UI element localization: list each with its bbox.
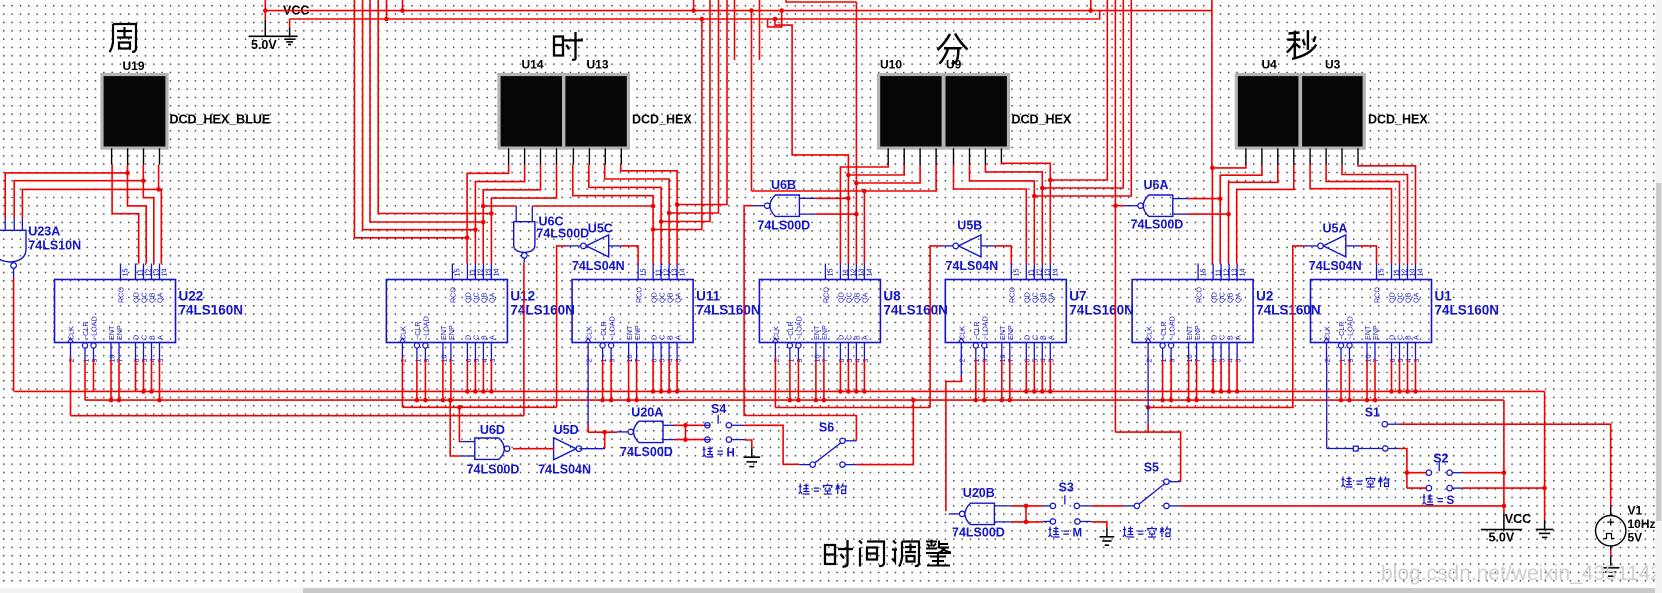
- junction U6A in1: [1218, 196, 1223, 201]
- svg-text:U1: U1: [1435, 289, 1453, 304]
- gate U6A 74LS00D NAND: [1138, 195, 1173, 216]
- svg-text:ENP: ENP: [820, 325, 829, 340]
- wire vertical x734.5 (bundleB line5): [734, 0, 736, 60]
- wire hour clock line y407: [402, 406, 556, 408]
- svg-text:U6D: U6D: [480, 423, 505, 437]
- svg-text:15: 15: [826, 269, 835, 277]
- wire U5B input from U7 RCO: [994, 246, 1011, 264]
- svg-text:CLK: CLK: [399, 326, 408, 340]
- gate U20B 74LS00D NAND: [959, 503, 994, 524]
- junction bundleA4: [489, 211, 494, 216]
- counter U12 74LS160N: [386, 264, 507, 363]
- svg-text:A: A: [1047, 335, 1056, 340]
- junction U6A output: [1113, 203, 1118, 208]
- wire U10 to U8 bit1: [840, 165, 888, 264]
- wire U23A output down to bus: [13, 278, 15, 392]
- svg-text:9: 9: [90, 359, 99, 363]
- wire U10 to U8 bit2: [848, 165, 904, 264]
- svg-text:9: 9: [422, 359, 431, 363]
- wire U6C in1 from U12 pin13: [483, 205, 516, 207]
- junction U2 CLK / second clock: [1146, 405, 1151, 410]
- ground for S3: [1106, 528, 1108, 537]
- svg-text:9: 9: [1168, 359, 1177, 363]
- wire U3 to U1 bit1: [1310, 165, 1391, 264]
- switch S2 row1: [1426, 462, 1452, 475]
- junction bundleB2: [659, 219, 664, 224]
- wire U3 to U1 bit4: [1358, 165, 1416, 264]
- wire U9 to U7 bit4: [1001, 163, 1050, 263]
- wire bundleA line5 (to H3): [386, 0, 388, 19]
- wire U14 to U12 bit4: [491, 165, 556, 264]
- wire U13 to U11 bit1: [573, 165, 653, 264]
- wire U23A input2 tap: [14, 181, 143, 218]
- power VCC top rail symbol: [249, 20, 298, 38]
- svg-text:3: 3: [1412, 359, 1421, 363]
- S6 stubs: [799, 441, 856, 465]
- switch S6 SPDT: [810, 438, 845, 467]
- svg-text:7: 7: [1371, 359, 1380, 363]
- counter U2 74LS160N: [1132, 264, 1253, 363]
- wire top rail H2 (VCC distribution): [264, 0, 1212, 11]
- gate U6B 74LS00D NAND: [764, 195, 799, 216]
- wire U14 to U12 bit1: [467, 165, 509, 264]
- svg-text:15: 15: [638, 269, 647, 277]
- junction H3 bundleB1 branch: [700, 17, 705, 22]
- svg-text:74LS160N: 74LS160N: [1069, 303, 1134, 318]
- wire bus1 end down to ground: [1544, 391, 1546, 520]
- wire U8 CLK to minute clock line: [774, 357, 776, 408]
- wire U19 to U22 bit2: [128, 165, 147, 264]
- S4 connecting stubs: [704, 425, 745, 439]
- junction U4pin1 on x1212 feedback: [1210, 166, 1215, 171]
- wire U5C output down: [557, 246, 566, 407]
- wires U7 bottom pins to buses: [974, 360, 1053, 403]
- wire U6C output vertical: [523, 262, 525, 416]
- svg-text:RCO: RCO: [634, 287, 643, 303]
- seven-seg display U13: [564, 75, 629, 149]
- caption 键 = M (S3): [1049, 527, 1083, 540]
- gate U20A 74LS00D NAND: [628, 421, 663, 442]
- counter U11 74LS160N: [572, 264, 693, 363]
- switch S1 SPDT: [1353, 422, 1388, 452]
- svg-text:10Hz: 10Hz: [1628, 517, 1656, 531]
- U5B stubs: [941, 245, 994, 247]
- svg-text:U19: U19: [123, 59, 145, 73]
- wire U23A input1 tap: [5, 173, 127, 218]
- svg-text:RCO: RCO: [449, 287, 458, 303]
- svg-text:QA: QA: [861, 292, 870, 303]
- pins of display U9: [954, 148, 1002, 164]
- section title 秒 (second): [1287, 30, 1317, 59]
- svg-text:15: 15: [121, 269, 130, 277]
- gate U6D 74LS00D NAND: [475, 438, 510, 459]
- title 时间调整 (time adjust): [825, 540, 951, 567]
- junction S2 feed: [1405, 470, 1410, 475]
- svg-text:ENP: ENP: [115, 325, 124, 340]
- junction x792 wire on U8 pin12: [846, 173, 851, 178]
- wire U4 to U2 bit3: [1229, 165, 1278, 264]
- ground bottom-right (bus ground): [1544, 520, 1546, 529]
- wire S6 lower throw to bus2: [856, 400, 913, 465]
- svg-text:QA: QA: [1233, 292, 1242, 303]
- svg-text:U20B: U20B: [963, 486, 995, 500]
- svg-text:74LS00D: 74LS00D: [536, 227, 589, 241]
- wire bundleA line1 to U12 pin vertical: [354, 0, 467, 238]
- wire U10 to U8 bit4: [864, 165, 936, 264]
- svg-text:15: 15: [1012, 269, 1021, 277]
- wire U14 to U12 bit3: [483, 165, 540, 264]
- wire U20A inputs to S4: [674, 423, 704, 442]
- svg-text:U6B: U6B: [771, 178, 796, 192]
- svg-text:3: 3: [674, 359, 683, 363]
- svg-text:2: 2: [1323, 359, 1332, 363]
- switch S3 row2: [1050, 519, 1080, 524]
- wire minute clock line y407: [775, 407, 930, 409]
- junction U5D out on U20A line: [602, 430, 607, 435]
- bus2 horizontal y400 (enable rail): [85, 399, 1504, 401]
- svg-text:14: 14: [865, 269, 874, 277]
- svg-text:U5D: U5D: [554, 423, 579, 437]
- svg-text:3: 3: [156, 359, 165, 363]
- svg-text:5V: 5V: [1628, 531, 1643, 545]
- svg-text:U8: U8: [883, 289, 901, 304]
- wire U6A in1 to U2 pin12: [1187, 198, 1220, 200]
- junction H2 x693.6: [691, 8, 696, 13]
- svg-text:QA: QA: [156, 292, 165, 303]
- svg-text:9: 9: [1346, 359, 1355, 363]
- wire U6C in2 to U11 pin11: [532, 205, 653, 207]
- svg-text:74LS00D: 74LS00D: [757, 219, 810, 233]
- inverter U5C 74LS04N: [581, 235, 609, 257]
- section title 时 (hour): [554, 32, 582, 60]
- svg-text:7: 7: [447, 359, 456, 363]
- svg-text:~LOAD: ~LOAD: [422, 316, 431, 340]
- wire vertical x693.6 to H2: [693, 0, 695, 11]
- svg-text:ENP: ENP: [1371, 325, 1380, 340]
- svg-text:7: 7: [1193, 359, 1202, 363]
- pins of display U3: [1310, 148, 1358, 164]
- wire U13 to U11 bit3: [605, 165, 669, 264]
- svg-text:U20A: U20A: [631, 406, 663, 420]
- wire U9 to U7 bit3: [985, 165, 1042, 264]
- caption 键 = 空格 (S6): [799, 484, 847, 497]
- svg-text:A: A: [1233, 335, 1242, 340]
- pins of display U14: [509, 148, 557, 164]
- svg-text:A: A: [1412, 335, 1421, 340]
- junction U6B in1: [846, 196, 851, 201]
- svg-text:A: A: [156, 335, 165, 340]
- wire S2 row1 to VCC stem: [1462, 472, 1504, 474]
- svg-text:DCD_HEX: DCD_HEX: [1368, 113, 1428, 127]
- wire bundleB line4 to U11 pin vertical: [677, 0, 727, 205]
- scrollbar bottom thumb: [303, 588, 1655, 593]
- svg-text:U4: U4: [1262, 58, 1278, 72]
- wire S1 upper throw to V1: [1400, 424, 1611, 506]
- svg-text:5.0V: 5.0V: [1489, 531, 1515, 545]
- wires U22 bottom pins to buses: [85, 360, 162, 403]
- wire bundleA line4 to U12 pin vertical: [378, 0, 491, 214]
- svg-text:9: 9: [795, 359, 804, 363]
- svg-text:blog.csdn.net/weixin_43511421: blog.csdn.net/weixin_43511421: [1381, 562, 1662, 585]
- section title 分 (minute): [938, 34, 968, 65]
- svg-text:74LS04N: 74LS04N: [538, 463, 591, 477]
- svg-text:QA: QA: [1412, 292, 1421, 303]
- wire bundleC line1 to U7 pin14: [1050, 0, 1107, 180]
- ground for S4: [751, 448, 753, 457]
- svg-text:ENP: ENP: [633, 325, 642, 340]
- svg-text:U23A: U23A: [28, 225, 60, 239]
- svg-text:RCO: RCO: [117, 287, 126, 303]
- counter U22 74LS160N: [55, 264, 176, 363]
- svg-text:DCD_HEX: DCD_HEX: [632, 113, 692, 127]
- svg-text:~LOAD: ~LOAD: [981, 316, 990, 340]
- caption 键 = 空格 (S2): [1342, 477, 1390, 490]
- svg-text:H: H: [727, 448, 735, 460]
- wire U5B output down: [930, 246, 941, 408]
- wire top short rail y2 to U8 pin13 vertical: [786, 0, 856, 2]
- svg-text:=: =: [1063, 528, 1069, 540]
- wire U10 to U8 bit3: [856, 165, 920, 264]
- junction bundleA3: [481, 220, 486, 225]
- wire U1 CLK down to S1: [1326, 357, 1328, 449]
- wire U13 to U11 bit4: [621, 165, 677, 264]
- ground for V1: [1610, 556, 1612, 567]
- pins of display U13: [573, 148, 621, 164]
- S5 stubs: [1124, 482, 1181, 506]
- svg-text:74LS04N: 74LS04N: [1309, 259, 1362, 273]
- wire H3 tap to U8 pin12 via x792: [775, 19, 848, 175]
- svg-text:QA: QA: [1047, 292, 1056, 303]
- svg-text:15: 15: [1198, 269, 1207, 277]
- switch S5 SPDT: [1134, 479, 1169, 509]
- svg-text:RCO: RCO: [822, 287, 831, 303]
- svg-text:9: 9: [981, 359, 990, 363]
- junction U6A in2: [1226, 212, 1231, 217]
- wire U6D out to U5D in: [513, 448, 554, 450]
- junction bundleA1: [465, 236, 470, 241]
- wire bundleB line1 to U11 pin vertical: [653, 19, 702, 230]
- svg-text:S3: S3: [1059, 481, 1074, 495]
- counter U8 74LS160N: [759, 264, 880, 363]
- inverter U5B 74LS04N: [953, 235, 981, 257]
- svg-text:CLK: CLK: [584, 326, 593, 340]
- svg-text:9: 9: [608, 359, 617, 363]
- wire U22 CLK to bus3: [70, 357, 72, 416]
- wire U20B inputs/S3 rows: [1011, 504, 1043, 525]
- seven-seg display U19: [102, 75, 167, 149]
- wire bundleA line3 to U12 pin vertical: [370, 0, 483, 222]
- inverter U5D 74LS04N: [554, 438, 582, 460]
- wire U6A/S5 feed line: [1115, 432, 1180, 482]
- bus3 horizontal y415 (week clock from U6C): [71, 415, 524, 417]
- svg-text:U3: U3: [1325, 58, 1341, 72]
- wire VCC stem red (top): [264, 0, 266, 20]
- svg-text:U7: U7: [1069, 289, 1086, 304]
- svg-text:2: 2: [772, 359, 781, 363]
- seven-seg display U9: [944, 75, 1009, 149]
- gate U6C 74LS00D NAND: [514, 222, 535, 258]
- junction S2 row2 on ground stem: [1542, 486, 1547, 491]
- junction H2 x402.5: [400, 8, 405, 13]
- svg-text:2: 2: [67, 359, 76, 363]
- svg-text:S6: S6: [819, 421, 834, 435]
- junction H2 x781.7: [779, 8, 784, 13]
- svg-text:74LS00D: 74LS00D: [952, 526, 1005, 540]
- svg-text:74LS04N: 74LS04N: [946, 259, 999, 273]
- svg-text:74LS04N: 74LS04N: [572, 259, 625, 273]
- svg-text:S4: S4: [711, 402, 726, 416]
- junction row ext on U8 pin14: [862, 189, 867, 194]
- junction U23A in1 on U19 pin2: [125, 171, 130, 176]
- junction U6C in1: [481, 204, 486, 209]
- wire H3 left end down to ground: [289, 19, 291, 27]
- wire U11 CLK to U20A output: [587, 357, 589, 433]
- svg-text:2: 2: [585, 359, 594, 363]
- svg-text:ENP: ENP: [447, 325, 456, 340]
- svg-text:2: 2: [958, 359, 967, 363]
- counter U7 74LS160N: [945, 264, 1066, 363]
- section title 周 (week): [110, 24, 137, 52]
- svg-text:5.0V: 5.0V: [251, 38, 277, 52]
- svg-text:U5C: U5C: [588, 222, 613, 236]
- counter U1 74LS160N: [1311, 264, 1432, 363]
- svg-text:~LOAD: ~LOAD: [795, 316, 804, 340]
- svg-text:DCD_HEX_BLUE: DCD_HEX_BLUE: [170, 113, 271, 127]
- wire vertical x402.5 to H2: [402, 0, 404, 11]
- wire U14 to U12 bit2: [475, 165, 524, 264]
- wire bundleB line2 to U11 pin vertical: [661, 0, 710, 222]
- junction H1 drop: [854, 181, 859, 186]
- svg-text:2: 2: [399, 359, 408, 363]
- junction U23A in3 on U19 pin4: [156, 187, 161, 192]
- junction U6D in1: [457, 405, 462, 410]
- svg-text:U22: U22: [179, 289, 204, 304]
- svg-text:74LS160N: 74LS160N: [883, 303, 948, 318]
- wire U6B in1 to U8 pin12: [815, 197, 848, 199]
- junction U6C in2: [651, 204, 656, 209]
- V1 bottom red stub: [1610, 550, 1612, 556]
- wire U5C input from U11 RCO: [622, 246, 638, 264]
- wire U4 to U2 bit2: [1220, 165, 1262, 264]
- ground (top, beside VCC): [284, 39, 295, 44]
- junction bundleC1: [1048, 178, 1053, 183]
- seven-seg display U4: [1236, 75, 1300, 149]
- svg-text:A: A: [488, 335, 497, 340]
- wire U7 CLK to U20B output: [960, 357, 962, 377]
- wire U6A output red segment: [1115, 205, 1124, 207]
- U5C stubs: [566, 245, 622, 247]
- svg-text:3: 3: [488, 359, 497, 363]
- svg-text:S2: S2: [1433, 452, 1448, 466]
- svg-text:CLK: CLK: [67, 326, 76, 340]
- svg-text:CLK: CLK: [958, 326, 967, 340]
- wires U12 bottom pins to buses: [415, 360, 494, 403]
- junction bundleC3: [1040, 186, 1045, 191]
- svg-text:14: 14: [1416, 269, 1425, 277]
- svg-text:ENP: ENP: [1006, 325, 1015, 340]
- wire bundleA line2 to U12 pin vertical: [363, 0, 476, 230]
- wire H1 drop to U8 pin13 vertical: [855, 2, 857, 183]
- scrollbar right track: [1655, 0, 1662, 593]
- wires U11 bottom pins to buses: [600, 360, 679, 403]
- svg-text:~LOAD: ~LOAD: [1346, 316, 1355, 340]
- wire U12 CLK to hour clock line: [401, 357, 403, 408]
- wire U6D in2 up to bus2: [450, 400, 461, 456]
- svg-text:CLK: CLK: [772, 326, 781, 340]
- wires U1 bottom pins to buses: [1339, 360, 1418, 403]
- svg-text:=: =: [717, 448, 723, 460]
- svg-text:14: 14: [160, 269, 169, 277]
- seven-seg display U14: [499, 75, 564, 149]
- wire S2 row2 to ground stem: [1462, 487, 1544, 489]
- caption 键 = S (S2): [1423, 494, 1455, 507]
- wire jog H2-H3 x768-782: [768, 11, 782, 27]
- wire S3 lower to ground: [1092, 522, 1107, 528]
- svg-text:U6A: U6A: [1144, 178, 1169, 192]
- svg-text:2: 2: [1145, 359, 1154, 363]
- junction H3 x775: [773, 17, 778, 22]
- wires U2 bottom pins to buses: [1160, 360, 1239, 403]
- wire S4 upper to S6 common: [745, 425, 799, 464]
- svg-text:A: A: [673, 335, 682, 340]
- seven-seg display U10: [879, 75, 944, 149]
- junction bundleB1: [651, 227, 656, 232]
- scrollbar bottom track: [0, 588, 1662, 593]
- wire S4 lower to ground: [745, 440, 752, 448]
- svg-text:15: 15: [453, 269, 462, 277]
- svg-text:=: =: [1356, 478, 1362, 490]
- wire S3 to S5 common: [1091, 505, 1124, 507]
- svg-text:7: 7: [820, 359, 829, 363]
- svg-text:U5A: U5A: [1323, 222, 1348, 236]
- wire second clock line y407: [1148, 406, 1294, 408]
- wire vertical x751.5 (H2 down to minute row): [751, 11, 753, 191]
- junction S2 row1 on VCC stem: [1502, 470, 1507, 475]
- wire row extension x751.5 to U8 pin14: [752, 190, 865, 192]
- wires U8 bottom pins to buses: [788, 360, 867, 403]
- source V1 10Hz 5V clock: [1596, 506, 1626, 556]
- junction bundleA2: [473, 227, 478, 232]
- svg-text:CLK: CLK: [1144, 326, 1153, 340]
- svg-text:U5B: U5B: [957, 219, 982, 233]
- scrollbar right thumb: [1656, 183, 1661, 521]
- wire bundleC line4 to U7 pin12: [1034, 0, 1131, 196]
- S3 stubs: [1043, 506, 1092, 522]
- junction H2 x751.5: [749, 8, 754, 13]
- caption 键 = 空格 (S5): [1123, 527, 1171, 540]
- wire U4 to U2 bit1: [1212, 165, 1246, 264]
- wire bus2 end down to VCC: [1503, 400, 1505, 513]
- bus1 horizontal y391 (data low rail): [14, 390, 1544, 392]
- svg-text:S1: S1: [1365, 406, 1380, 420]
- U20A stubs: [617, 425, 674, 439]
- switch S4 row1: [705, 415, 732, 428]
- wire U6A in2 to U2 pin13: [1187, 213, 1228, 215]
- wire U2 CLK down: [1147, 357, 1149, 425]
- switch S2 row2: [1426, 485, 1452, 490]
- inverter U5A 74LS04N: [1318, 235, 1346, 257]
- wire U3 to U1 bit2: [1326, 165, 1399, 264]
- wire U23A input3 tap: [22, 189, 158, 218]
- svg-text:U13: U13: [587, 58, 609, 72]
- svg-text:RCO: RCO: [1194, 287, 1203, 303]
- svg-text:A: A: [861, 335, 870, 340]
- seven-seg display U3: [1301, 75, 1365, 149]
- svg-text:14: 14: [1237, 269, 1246, 277]
- caption 键 = H (S4): [703, 447, 735, 460]
- svg-text:7: 7: [1006, 359, 1015, 363]
- svg-text:U14: U14: [522, 58, 544, 72]
